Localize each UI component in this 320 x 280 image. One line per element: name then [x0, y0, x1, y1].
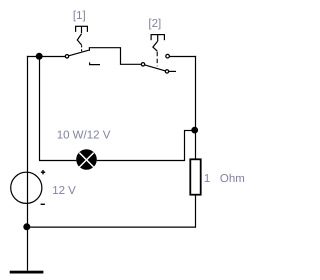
switch S1 open contact: [90, 62, 100, 64]
battery plus sign: [41, 170, 45, 174]
wire lamp right horizontal: [97, 160, 185, 162]
battery V1 circle: [11, 172, 42, 203]
switch S2 left terminal: [141, 63, 144, 66]
switch S1 spring zigzag: [77, 34, 81, 45]
switch S2 spring zigzag: [153, 41, 158, 51]
svg-text:1 Ohm: 1 Ohm: [204, 173, 245, 185]
svg-text:10 W/12 V: 10 W/12 V: [57, 130, 111, 142]
switch S1 left terminal: [65, 55, 68, 58]
switch S2 dashed link: [156, 52, 158, 66]
wire top-right horizontal: [169, 56, 196, 58]
wire left vertical (through source): [27, 56, 29, 271]
switch S1 blade: [69, 50, 89, 56]
switch S1 contact step and output wire: [89, 48, 142, 65]
svg-text:12 V: 12 V: [52, 185, 76, 197]
lamp L1 body: [76, 149, 97, 170]
wire bottom horizontal: [27, 226, 196, 228]
wire right vertical: [195, 56, 197, 159]
wire lamp feed horizontal: [39, 160, 76, 162]
switch S1 dashed link: [81, 45, 83, 52]
switch S2 actuator button: [151, 34, 164, 41]
battery minus sign: [41, 203, 45, 205]
wire lamp right vertical riser: [184, 130, 186, 161]
node junction B: [191, 127, 198, 134]
wire top-left horizontal: [27, 56, 66, 58]
switch S2 blade end terminal: [165, 70, 168, 73]
wire below resistor: [195, 195, 197, 228]
switch S2 blade: [145, 65, 166, 71]
switch S1 actuator button: [76, 26, 88, 34]
resistor R1 body: [190, 159, 200, 194]
node junction C: [23, 223, 30, 230]
wire riser to node: [184, 130, 193, 132]
switch S2 open stub: [169, 70, 176, 72]
wire lamp feed vertical: [39, 56, 41, 161]
node junction A: [36, 53, 43, 60]
svg-text:[2]: [2]: [148, 18, 161, 30]
switch S2 fixed contact terminal: [166, 54, 170, 58]
svg-text:[1]: [1]: [73, 10, 86, 22]
ground bar: [10, 271, 44, 274]
lamp L1 cross: [79, 153, 93, 167]
